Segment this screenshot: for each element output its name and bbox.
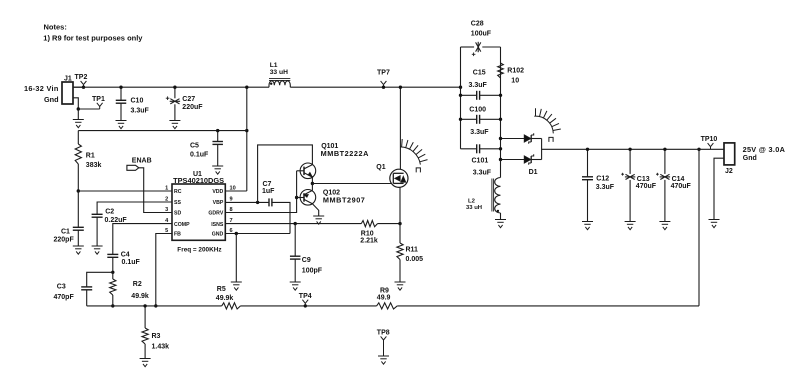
transistor Q101 MMBT2222A <box>300 163 316 179</box>
node driver base <box>295 196 298 199</box>
svg-text:C15: C15 <box>473 70 486 77</box>
svg-text:C3: C3 <box>57 283 66 290</box>
svg-text:C5: C5 <box>190 143 199 150</box>
svg-text:1) R9 for test purposes only: 1) R9 for test purposes only <box>43 34 143 43</box>
svg-text:470pF: 470pF <box>54 294 75 301</box>
node FB <box>154 304 157 307</box>
wire to C3 <box>87 272 113 287</box>
wire output rail <box>542 148 724 150</box>
svg-text:C9: C9 <box>302 257 311 264</box>
wire right column <box>500 47 502 160</box>
svg-text:0.1uF: 0.1uF <box>190 152 209 159</box>
ground at R11 <box>395 282 406 290</box>
svg-text:C101: C101 <box>472 157 489 164</box>
capacitor C10 <box>120 87 122 100</box>
resistor R9 49.9 <box>377 303 398 309</box>
capacitor C15 3.3uF <box>477 91 480 100</box>
wire J1 pin2 to input ground <box>73 98 78 109</box>
heatsink symbol at Q1 <box>400 139 427 172</box>
svg-text:R2: R2 <box>133 281 142 288</box>
svg-text:49.9k: 49.9k <box>216 295 234 302</box>
wire diode cathodes <box>541 139 543 160</box>
wire to TP1 <box>78 108 99 110</box>
wire Q102 collector to ground <box>312 204 318 216</box>
svg-text:R11: R11 <box>406 246 419 253</box>
svg-text:ENAB: ENAB <box>132 157 152 164</box>
svg-text:TP2: TP2 <box>75 74 88 81</box>
node TP7 <box>382 86 385 89</box>
ground at C10 <box>116 121 127 129</box>
wire VDD bypass rail <box>78 130 247 132</box>
svg-text:Notes:: Notes: <box>44 22 67 31</box>
ground at C12 <box>582 222 593 230</box>
ground at C5 <box>212 166 223 174</box>
svg-text:R102: R102 <box>507 68 524 75</box>
op-amp U1 TPS40210DGS <box>172 184 225 240</box>
wire C7 to GND net <box>272 202 290 233</box>
capacitor C28 100uF <box>461 46 475 48</box>
svg-text:TP10: TP10 <box>701 136 718 143</box>
capacitor C1 220pF <box>77 191 79 227</box>
svg-text:9: 9 <box>230 197 233 203</box>
capacitor C2 0.22uF <box>92 214 103 217</box>
node VDD rail junction <box>245 129 248 132</box>
resistor R2 49.9k <box>112 272 114 279</box>
svg-text:Gnd: Gnd <box>44 95 59 104</box>
svg-text:2.21k: 2.21k <box>360 238 378 245</box>
svg-text:COMP: COMP <box>174 222 190 228</box>
wire Vin to VDD <box>246 87 248 191</box>
svg-text:33 uH: 33 uH <box>270 69 288 76</box>
capacitor C27 (polarized) <box>174 87 176 98</box>
svg-text:383k: 383k <box>86 162 102 169</box>
svg-text:R9: R9 <box>380 288 389 295</box>
wire gate drive to Q1 <box>312 183 391 185</box>
svg-text:L2: L2 <box>468 199 476 205</box>
node COMP divider <box>111 271 114 274</box>
svg-text:Q1: Q1 <box>376 164 385 171</box>
transistor Q102 MMBT2907 <box>300 190 316 206</box>
svg-text:10: 10 <box>511 77 519 84</box>
resistor R3 1.43k <box>144 306 146 328</box>
capacitor C7 1uF <box>269 198 272 206</box>
resistor R11 0.005 <box>399 224 401 243</box>
svg-text:D1: D1 <box>529 169 538 176</box>
transistor Q1 MOSFET <box>390 169 408 187</box>
svg-text:Freq = 200KHz: Freq = 200KHz <box>177 246 221 253</box>
wire VDD rail <box>225 190 247 192</box>
wire SS pin <box>97 202 172 214</box>
wire GND to ground <box>235 234 237 283</box>
wire J2 ground pin <box>714 158 724 219</box>
svg-text:220pF: 220pF <box>54 236 75 243</box>
test point TP7 <box>381 81 387 87</box>
wire Q102 emitter <box>311 184 313 191</box>
svg-text:J2: J2 <box>725 168 733 175</box>
svg-text:SS: SS <box>174 200 181 206</box>
ground at R3 <box>140 359 151 367</box>
svg-text:Gnd: Gnd <box>743 155 757 162</box>
svg-text:33 uH: 33 uH <box>466 205 482 211</box>
node driver output <box>311 182 314 185</box>
svg-text:MMBT2222A: MMBT2222A <box>321 149 370 158</box>
ground at U1 <box>231 282 242 290</box>
wire Q1 source <box>399 187 401 223</box>
wire COMP pin <box>113 224 172 255</box>
svg-text:C1: C1 <box>61 228 70 235</box>
test point TP4 <box>302 300 308 306</box>
svg-text:GND: GND <box>212 232 224 238</box>
svg-text:R5: R5 <box>217 286 226 293</box>
capacitor C9 100pF <box>294 224 296 257</box>
svg-text:470uF: 470uF <box>636 183 657 190</box>
svg-text:3.3uF: 3.3uF <box>131 107 150 114</box>
svg-text:0.22uF: 0.22uF <box>105 217 128 224</box>
capacitor C13 470uF (polarized) <box>629 149 631 174</box>
svg-text:1: 1 <box>165 186 168 192</box>
connector J1 <box>62 82 73 104</box>
wire R10 to Q1 source <box>378 223 401 225</box>
svg-text:C13: C13 <box>637 176 650 183</box>
ground at C2 <box>92 246 103 254</box>
wire GND pin <box>225 233 290 235</box>
node GND <box>235 232 238 235</box>
U1 pin names <box>174 189 224 238</box>
svg-text:16-32 Vin: 16-32 Vin <box>24 84 59 93</box>
svg-text:C12: C12 <box>596 175 609 182</box>
capacitor C101 3.3uF <box>477 144 480 153</box>
ground at C14 <box>659 222 670 230</box>
net flag ENAB <box>127 165 139 170</box>
svg-text:49.9: 49.9 <box>377 295 391 302</box>
wire FB pin <box>156 234 172 306</box>
node input ground junction <box>77 107 80 110</box>
test point TP10 <box>708 143 714 149</box>
capacitor C14 470uF (polarized) <box>664 149 666 174</box>
heatsink symbol at D1 <box>534 108 561 142</box>
wire Vin rail after L1 <box>290 86 460 88</box>
svg-text:VBP: VBP <box>213 200 224 206</box>
svg-text:3.3uF: 3.3uF <box>469 82 488 89</box>
U1 pin numbers <box>165 186 236 235</box>
svg-text:100pF: 100pF <box>302 268 323 275</box>
test point TP8 <box>381 336 387 356</box>
svg-text:0.005: 0.005 <box>406 256 424 263</box>
svg-text:ISNS: ISNS <box>211 222 224 228</box>
svg-text:TP4: TP4 <box>299 293 312 300</box>
svg-text:3.3uF: 3.3uF <box>473 169 492 176</box>
ground at J1 <box>73 120 84 128</box>
svg-text:100uF: 100uF <box>471 30 492 37</box>
svg-text:1uF: 1uF <box>262 188 275 195</box>
svg-text:C28: C28 <box>471 21 484 28</box>
svg-text:3.3uF: 3.3uF <box>596 184 615 191</box>
resistor R102 10 <box>498 63 504 78</box>
capacitor C4 0.1uF <box>107 254 118 257</box>
svg-text:J1: J1 <box>64 75 72 82</box>
test point TP1 <box>97 103 103 109</box>
wire left column <box>460 47 462 149</box>
wire ISNS pin <box>225 223 361 225</box>
svg-text:1.43k: 1.43k <box>152 343 170 350</box>
svg-text:VDD: VDD <box>212 189 223 195</box>
svg-text:GDRV: GDRV <box>208 211 223 217</box>
svg-text:C14: C14 <box>672 176 685 183</box>
ground at TP8 <box>378 356 389 364</box>
resistor R1 383k <box>77 131 79 144</box>
node TP4 <box>304 304 307 307</box>
resistor R5 49.9k <box>222 303 241 309</box>
wire feedback rail right <box>397 305 699 307</box>
wire GDRV pin <box>225 198 296 213</box>
ground at Q102 <box>313 216 324 224</box>
svg-text:FB: FB <box>174 232 181 238</box>
svg-text:220uF: 220uF <box>182 104 203 111</box>
svg-text:RC: RC <box>174 189 182 195</box>
ground at C1 <box>73 246 84 254</box>
svg-text:2: 2 <box>165 197 168 203</box>
node VBP <box>256 201 259 204</box>
svg-text:3.3uF: 3.3uF <box>470 129 489 136</box>
wire feedback rail mid <box>241 305 377 307</box>
wire Vin rail <box>73 86 269 88</box>
wire base line <box>296 171 298 198</box>
svg-text:MMBT2907: MMBT2907 <box>323 195 366 204</box>
wire ENAB to SD pin <box>139 168 172 213</box>
test point TP2 <box>81 81 87 87</box>
inductor L2 33uH <box>500 160 502 178</box>
ground at L2 <box>495 220 506 228</box>
node C9 tap <box>294 222 297 225</box>
ground at C9 <box>290 282 301 290</box>
inductor L1 33uH <box>269 81 290 87</box>
svg-text:25V @ 3.0A: 25V @ 3.0A <box>743 145 786 154</box>
wire Q101 collector to VBP <box>258 145 313 203</box>
wire down to ground <box>77 109 79 120</box>
svg-text:R3: R3 <box>152 333 161 340</box>
svg-text:49.9k: 49.9k <box>131 293 149 300</box>
svg-text:C4: C4 <box>121 252 130 259</box>
capacitor C100 3.3uF <box>477 115 480 124</box>
wire J1 pin1 to Vin rail <box>73 86 84 88</box>
svg-text:0.1uF: 0.1uF <box>122 259 141 266</box>
capacitor C3 470pF <box>81 287 92 290</box>
svg-text:3: 3 <box>165 207 168 213</box>
svg-text:C10: C10 <box>131 97 144 104</box>
node Vin rail to column <box>459 86 462 89</box>
node RC <box>77 189 80 192</box>
resistor R10 2.21k <box>361 221 377 227</box>
svg-text:5: 5 <box>165 228 168 234</box>
ground at J2 <box>709 220 720 228</box>
connector J2 <box>724 143 735 165</box>
capacitor C5 0.1uF <box>217 131 219 142</box>
wire RC pin <box>78 190 172 192</box>
node current sense <box>398 222 401 225</box>
wire feedback to output <box>698 149 700 306</box>
svg-text:TP1: TP1 <box>92 96 105 103</box>
svg-text:470uF: 470uF <box>671 183 692 190</box>
wire feedback rail left <box>87 305 222 307</box>
capacitor C12 3.3uF <box>587 149 589 177</box>
svg-text:SD: SD <box>174 211 181 217</box>
svg-text:C100: C100 <box>469 106 486 113</box>
ground at C13 <box>625 222 636 230</box>
wire Q1 drain <box>399 87 401 169</box>
svg-text:TPS40210DGS: TPS40210DGS <box>173 176 224 185</box>
svg-text:TP7: TP7 <box>377 70 390 77</box>
svg-text:10: 10 <box>230 186 236 192</box>
wire VBP pin <box>225 201 269 203</box>
svg-text:C2: C2 <box>105 209 114 216</box>
svg-text:TP8: TP8 <box>377 330 390 337</box>
svg-text:R1: R1 <box>86 153 95 160</box>
diode D1a <box>501 138 525 140</box>
node TP2 <box>82 86 85 89</box>
wire Q101 emitter junction <box>311 177 313 183</box>
svg-text:C27: C27 <box>182 96 195 103</box>
ground at C27 <box>169 121 180 129</box>
diode D1b <box>501 159 525 161</box>
